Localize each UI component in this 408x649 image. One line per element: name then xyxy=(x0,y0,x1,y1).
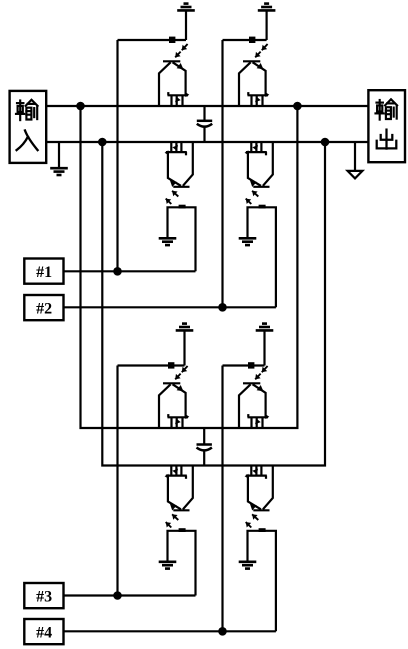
phototransistor Q7 emitter lead with arrow xyxy=(168,476,181,510)
phototransistor Q8 emitter lead with arrow xyxy=(248,476,261,510)
MOSFET Q1 channel bar xyxy=(168,94,189,96)
wire control feed #1 upper xyxy=(116,40,118,271)
wire bottom signal rail xyxy=(46,141,369,143)
phototransistor Q4 base bar xyxy=(253,186,269,188)
wire left branch from bottom rail to lower block xyxy=(102,142,325,466)
MOSFET Q1 drain contact xyxy=(181,95,183,106)
phototransistor Q2 collector lead xyxy=(239,62,251,106)
light arrows into phototransistor Q1 xyxy=(182,44,188,50)
MOSFET Q3 body arrow xyxy=(175,142,177,152)
MOSFET Q2 drain contact xyxy=(261,95,263,106)
phototransistor Q6 emitter lead with arrow xyxy=(253,384,266,417)
output label glyph 出 xyxy=(377,130,397,149)
MOSFET Q3 source contact xyxy=(170,142,172,152)
MOSFET Q8 source contact xyxy=(250,466,252,476)
LED D4 cell D xyxy=(259,205,266,209)
wire control feed #4 upper xyxy=(221,366,223,632)
LED loop wire cell H xyxy=(248,531,276,632)
MOSFET Q5 drain contact xyxy=(181,417,183,428)
node junction top rail right xyxy=(293,102,302,111)
phototransistor Q5 base bar xyxy=(163,382,180,384)
MOSFET Q7 channel bar xyxy=(166,475,187,477)
wire from box #2 xyxy=(64,306,276,308)
LED D1 cell A xyxy=(169,37,175,43)
MOSFET Q2 channel bar xyxy=(248,94,269,96)
light arrows into phototransistor Q5 xyxy=(182,366,188,372)
phototransistor Q1 emitter lead with arrow xyxy=(173,62,186,95)
MOSFET Q8 channel bar xyxy=(246,475,267,477)
MOSFET Q6 channel bar xyxy=(248,416,269,418)
node junction #2 feed xyxy=(218,303,227,312)
MOSFET Q7 source contact xyxy=(170,466,172,476)
phototransistor Q4 emitter lead with arrow xyxy=(248,152,261,186)
control box #4 xyxy=(24,619,63,644)
control box #2 xyxy=(24,295,63,320)
LED drive wire cell E xyxy=(118,364,185,366)
LED loop wire cell C xyxy=(168,207,196,271)
LED D5 cell E xyxy=(168,362,174,368)
ground below cell G xyxy=(159,562,177,569)
node junction #4 feed xyxy=(218,627,227,636)
svg-text:#3: #3 xyxy=(36,588,52,605)
phototransistor Q5 collector lead xyxy=(159,384,171,428)
input label 输入 glyph 输 xyxy=(16,100,38,120)
ground above cell E xyxy=(176,324,194,366)
MOSFET Q8 body arrow xyxy=(255,466,257,476)
ground at output (signal ground triangle) xyxy=(348,142,363,178)
MOSFET Q4 drain contact xyxy=(260,142,262,152)
MOSFET Q4 channel bar xyxy=(246,151,267,153)
ground below cell H xyxy=(239,562,257,569)
wire left branch from top rail to lower block xyxy=(81,106,298,428)
MOSFET Q2 body arrow xyxy=(256,95,258,106)
MOSFET Q4 body arrow xyxy=(255,142,257,152)
LED D2 cell B xyxy=(249,37,255,43)
phototransistor Q5 emitter lead with arrow xyxy=(173,384,186,417)
MOSFET Q5 body arrow xyxy=(176,417,178,428)
wire control feed #2 upper xyxy=(221,40,223,307)
MOSFET Q4 source contact xyxy=(250,142,252,152)
ground above cell A xyxy=(177,4,195,40)
svg-text:#2: #2 xyxy=(36,300,52,317)
capacitor C2 between lower rails xyxy=(197,428,212,466)
MOSFET Q1 body arrow xyxy=(176,95,178,106)
phototransistor Q6 collector lead xyxy=(239,384,251,428)
phototransistor Q3 base bar xyxy=(173,186,189,188)
svg-text:#1: #1 xyxy=(36,264,52,281)
LED loop wire cell G xyxy=(168,531,196,596)
LED D7 cell G xyxy=(179,528,186,532)
wire control feed #3 upper xyxy=(116,366,118,596)
node junction top rail left xyxy=(76,102,85,111)
node junction bottom rail left xyxy=(98,138,107,147)
phototransistor Q3 emitter lead with arrow xyxy=(168,152,181,186)
MOSFET Q1 source contact xyxy=(170,95,172,106)
phototransistor Q2 emitter lead with arrow xyxy=(253,62,266,95)
LED D8 cell H xyxy=(259,528,266,532)
wire top signal rail xyxy=(46,105,369,107)
light arrows into phototransistor Q7 xyxy=(172,514,178,520)
wire from box #3 xyxy=(64,594,196,596)
MOSFET Q3 channel bar xyxy=(166,151,187,153)
wire from box #4 xyxy=(64,630,276,632)
LED drive wire cell B xyxy=(223,39,267,41)
ground at input xyxy=(50,142,68,175)
MOSFET Q5 channel bar xyxy=(168,416,189,418)
MOSFET Q7 body arrow xyxy=(175,466,177,476)
LED drive wire cell A xyxy=(118,39,187,41)
light arrows into phototransistor Q2 xyxy=(262,44,268,50)
MOSFET Q7 drain contact xyxy=(180,466,182,476)
node junction #3 feed xyxy=(113,591,122,600)
light arrows into phototransistor Q6 xyxy=(262,366,268,372)
node junction #1 feed xyxy=(113,267,122,276)
LED D3 cell C xyxy=(179,205,186,209)
input label glyph 入 xyxy=(17,131,38,151)
MOSFET Q8 drain contact xyxy=(260,466,262,476)
ground below cell C xyxy=(159,238,177,245)
ground below cell D xyxy=(239,238,257,245)
LED loop wire cell D xyxy=(248,207,276,307)
MOSFET Q6 source contact xyxy=(250,417,252,428)
MOSFET Q6 body arrow xyxy=(256,417,258,428)
LED D6 cell F xyxy=(248,362,254,368)
MOSFET Q2 source contact xyxy=(250,95,252,106)
MOSFET Q3 drain contact xyxy=(180,142,182,152)
phototransistor Q8 base bar xyxy=(253,509,269,511)
wire from box #1 xyxy=(64,270,196,272)
phototransistor Q1 collector lead xyxy=(159,62,171,106)
phototransistor Q1 base bar xyxy=(163,60,180,62)
light arrows into phototransistor Q4 xyxy=(252,191,258,197)
phototransistor Q7 collector lead xyxy=(183,466,193,510)
output port box 输出 xyxy=(368,90,405,162)
ground above cell F xyxy=(256,324,274,366)
capacitor C1 between rails xyxy=(197,106,212,142)
node junction bottom rail right xyxy=(321,138,330,147)
MOSFET Q5 source contact xyxy=(170,417,172,428)
phototransistor Q6 base bar xyxy=(243,382,260,384)
svg-text:#4: #4 xyxy=(36,624,52,641)
input port box 输入 xyxy=(10,91,47,163)
phototransistor Q2 base bar xyxy=(243,60,260,62)
ground above cell B xyxy=(258,4,276,40)
phototransistor Q3 collector lead xyxy=(183,142,193,186)
light arrows into phototransistor Q3 xyxy=(172,191,178,197)
light arrows into phototransistor Q8 xyxy=(252,514,258,520)
control box #1 xyxy=(24,259,63,284)
phototransistor Q7 base bar xyxy=(173,509,189,511)
MOSFET Q6 drain contact xyxy=(261,417,263,428)
control box #3 xyxy=(24,583,63,608)
LED drive wire cell F xyxy=(223,364,265,366)
output label glyph 输 xyxy=(376,99,398,119)
phototransistor Q8 collector lead xyxy=(263,466,273,510)
phototransistor Q4 collector lead xyxy=(263,142,273,186)
